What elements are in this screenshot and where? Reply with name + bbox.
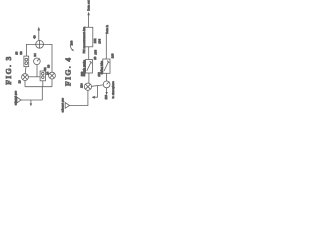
svg-text:30: 30 xyxy=(47,64,51,68)
box B2 (check valve in box) xyxy=(103,59,110,73)
svg-text:104: 104 xyxy=(97,38,101,43)
svg-text:PM measurement dev.: PM measurement dev. xyxy=(83,26,86,53)
bottom bus wire xyxy=(25,86,52,88)
svg-text:112: 112 xyxy=(97,72,101,77)
svg-text:Data out: Data out xyxy=(87,0,90,10)
svg-text:exhaust gas: exhaust gas xyxy=(15,90,18,105)
rotameter FM1 xyxy=(24,56,29,67)
drain stub arrow xyxy=(30,100,32,106)
svg-text:110: 110 xyxy=(80,71,84,76)
svg-text:36: 36 xyxy=(19,51,23,55)
wire B2 to gauge xyxy=(105,73,107,81)
valve V2 (circle-X) xyxy=(49,72,56,79)
controller U1 (rect) xyxy=(85,27,93,47)
wire pump to gauge xyxy=(92,85,104,86)
wire B1 to pump xyxy=(88,73,90,83)
svg-text:108: 108 xyxy=(111,53,115,58)
svg-text:114: 114 xyxy=(79,83,83,88)
svg-text:exhaust gas: exhaust gas xyxy=(61,97,64,112)
wire pump bottom to check valve CV2 xyxy=(70,90,88,105)
wire V2 bottom xyxy=(51,79,53,87)
gauge G2 xyxy=(103,81,110,88)
filter F1 (rect with beads) xyxy=(40,71,45,81)
check valve CV1 (triangle) xyxy=(17,97,21,103)
svg-text:FIG. 4: FIG. 4 xyxy=(63,57,72,86)
drop wire xyxy=(41,87,43,100)
reference arrow 100 xyxy=(70,45,73,50)
svg-text:to atmosphere: to atmosphere xyxy=(112,81,115,99)
wire pump-right outer bus xyxy=(44,44,53,72)
svg-text:34: 34 xyxy=(33,53,37,57)
data in wire xyxy=(105,34,107,59)
pump P1 (circle-plus) xyxy=(36,40,44,48)
wire controller to box B1 xyxy=(88,47,90,60)
svg-text:10: 10 xyxy=(93,56,97,60)
exhaust arrow (top, pointing up) xyxy=(38,27,41,41)
vent stub arrow xyxy=(92,86,98,99)
box B1 (check valve in box) xyxy=(86,60,93,74)
pump P2 (circle-X) xyxy=(84,83,91,90)
wire V1 bottom xyxy=(24,81,26,87)
bottom wire xyxy=(21,99,42,101)
svg-text:28: 28 xyxy=(18,80,22,84)
check valve CV2 (triangle) xyxy=(65,103,69,109)
valve V1 (circle-X) xyxy=(22,74,29,81)
gauge G1 xyxy=(34,58,41,65)
wire pump-left to rotameter xyxy=(26,44,35,56)
data out arrow xyxy=(87,12,89,28)
svg-text:drying tube: drying tube xyxy=(101,60,104,74)
svg-text:40: 40 xyxy=(32,35,36,39)
svg-text:106: 106 xyxy=(93,49,97,54)
svg-text:100: 100 xyxy=(69,40,73,45)
svg-text:Data in: Data in xyxy=(106,24,109,33)
wire rotameter to valve V1 xyxy=(24,67,27,74)
gauge G1 stem xyxy=(36,65,38,77)
wire V1 right to filter xyxy=(28,76,40,78)
wire filter bottom xyxy=(42,81,44,87)
gauge outlet arrow xyxy=(105,88,107,95)
svg-text:FIG. 3: FIG. 3 xyxy=(4,55,13,84)
svg-text:116: 116 xyxy=(104,94,108,99)
